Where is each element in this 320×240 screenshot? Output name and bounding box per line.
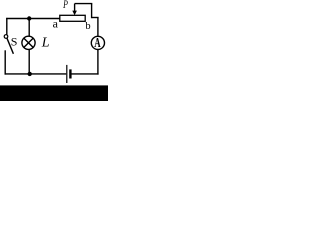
switch S bbox=[4, 35, 13, 54]
svg-text:P: P bbox=[62, 0, 67, 11]
lamp L bbox=[22, 36, 35, 49]
potentiometer P bbox=[60, 4, 85, 22]
node junction top bbox=[27, 16, 31, 20]
wire jog horizontal bbox=[92, 17, 99, 19]
svg-text:S: S bbox=[11, 35, 18, 49]
node junction bottom bbox=[28, 72, 32, 76]
wire bottom left horizontal bbox=[5, 73, 67, 75]
wire top horizontal bbox=[6, 18, 60, 20]
svg-text:L: L bbox=[41, 36, 50, 51]
svg-text:a: a bbox=[53, 17, 59, 31]
battery cell bbox=[67, 65, 71, 83]
wire switch bottom lead bbox=[4, 50, 6, 74]
wire right vertical from top bbox=[91, 4, 93, 19]
wire bottom right horizontal bbox=[72, 73, 99, 75]
black bottom band bbox=[0, 85, 108, 101]
wire ammeter top lead bbox=[97, 18, 99, 37]
wire ammeter bottom lead bbox=[97, 50, 99, 75]
wire lamp bottom lead bbox=[28, 50, 30, 75]
svg-text:b: b bbox=[85, 21, 90, 32]
wire lamp top lead bbox=[28, 19, 30, 37]
wire wiper top horizontal bbox=[75, 3, 93, 5]
svg-text:A: A bbox=[94, 36, 101, 51]
ammeter A bbox=[91, 36, 104, 51]
wire top-left vertical bbox=[6, 18, 8, 35]
